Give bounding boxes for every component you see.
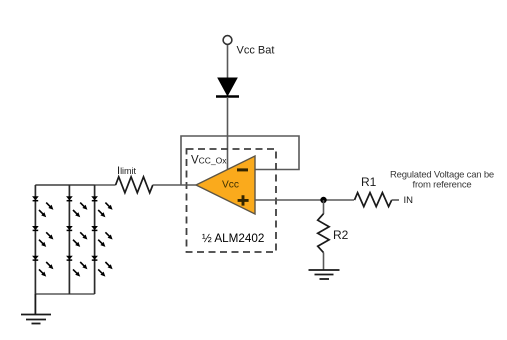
svg-text:Vcc: Vcc xyxy=(222,180,239,191)
LED D10 xyxy=(92,256,113,277)
dashed box U1 boundary xyxy=(187,149,277,252)
svg-text:½ ALM2402: ½ ALM2402 xyxy=(202,232,264,245)
wire terminal to diode xyxy=(227,45,229,78)
LED D6 xyxy=(67,226,88,247)
LED D7 xyxy=(67,256,88,277)
LED D8 xyxy=(92,197,113,218)
wire LED column 1 xyxy=(34,185,36,294)
LED D4 xyxy=(33,256,54,277)
wire LED column 2 xyxy=(68,185,70,294)
wire diode to op-amp Vcc pin xyxy=(227,97,229,170)
wire R1 to IN xyxy=(392,199,399,201)
wire R2 to ground xyxy=(323,253,325,270)
LED D2 xyxy=(33,197,54,218)
svg-text:IN: IN xyxy=(404,195,414,206)
svg-text:VCC_Ox: VCC_Ox xyxy=(191,155,227,167)
wire LED bottom bus xyxy=(35,293,94,295)
ground left xyxy=(21,294,51,324)
LED D9 xyxy=(92,226,113,247)
terminal Vcc Bat xyxy=(223,36,232,45)
wire LED bus to resistor Ilimit xyxy=(35,184,115,186)
svg-text:R1: R1 xyxy=(361,175,377,189)
diode D1 xyxy=(216,78,239,97)
resistor R2 xyxy=(318,214,329,253)
ground right xyxy=(309,270,340,279)
op-amp U1 xyxy=(196,156,255,214)
resistor R1 xyxy=(355,193,392,207)
wire op-amp non-inverting to node xyxy=(255,199,354,201)
node junction xyxy=(320,197,326,203)
wire LED column 3 xyxy=(94,185,96,294)
resistor Ilimit xyxy=(116,177,153,193)
LED D5 xyxy=(67,197,88,218)
wire LED top bus xyxy=(35,184,94,186)
wire resistor to op-amp output xyxy=(153,184,196,186)
svg-text:Vcc Bat: Vcc Bat xyxy=(237,45,275,57)
non-inverting input mark + xyxy=(238,195,249,205)
inverting input mark − xyxy=(237,168,248,171)
LED D3 xyxy=(33,226,54,247)
svg-text:Ilimit: Ilimit xyxy=(117,165,137,177)
svg-text:from reference: from reference xyxy=(413,179,472,190)
feedback wire output to inverting input xyxy=(181,136,299,185)
svg-text:R2: R2 xyxy=(333,228,349,242)
wire node to R2 xyxy=(323,200,325,214)
